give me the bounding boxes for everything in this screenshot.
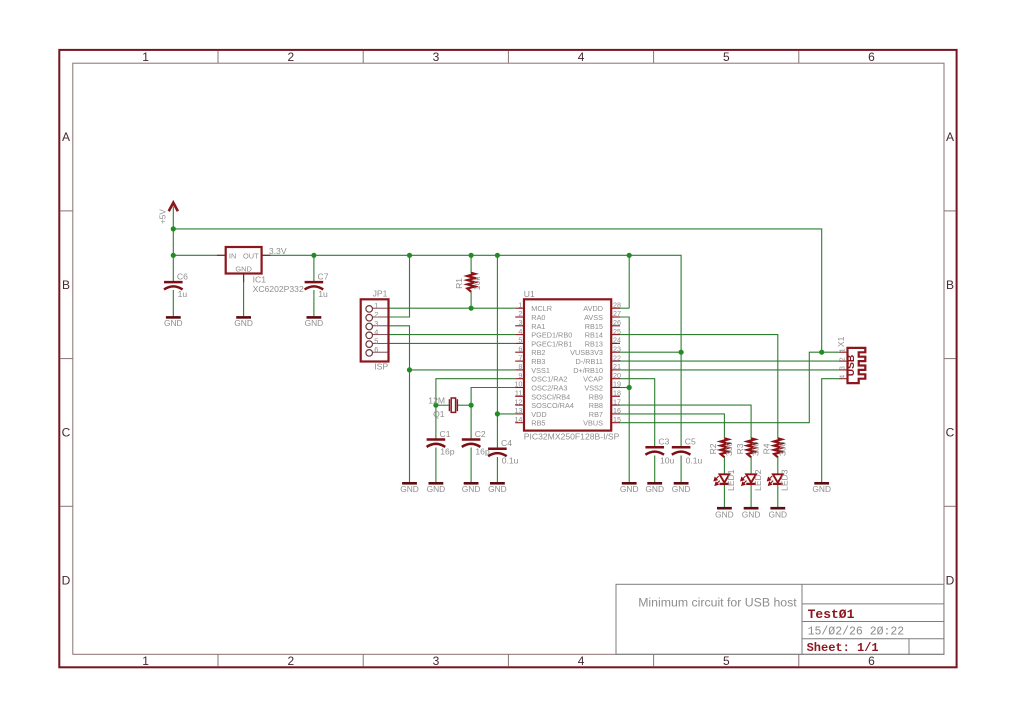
svg-text:300: 300 [777,442,787,457]
svg-text:A: A [946,130,954,144]
ground symbol GND [462,483,481,494]
svg-text:LED3: LED3 [780,469,790,491]
wire D+ to USB pin3 [620,369,839,371]
JP1 pin 1 [366,306,373,313]
svg-text:SOSCI/RB4: SOSCI/RB4 [531,392,570,401]
svg-text:10k: 10k [472,276,482,291]
svg-text:+5V: +5V [159,209,168,224]
svg-text:16p: 16p [475,446,490,456]
U1 pin 10 OSC2/RA3 [514,380,567,393]
U1 pin 16 RB7 [589,406,621,419]
wire R4-LED3 [777,456,779,474]
svg-text:7: 7 [518,353,522,362]
svg-text:15: 15 [613,415,621,424]
USB connector X1 [836,336,865,383]
svg-text:GND: GND [427,484,446,494]
svg-text:C: C [62,426,71,440]
microcontroller U1 PIC32MX250F128B-I/SP [514,289,621,442]
svg-text:U1: U1 [524,289,535,299]
svg-text:RB8: RB8 [589,401,603,410]
LED LED3 [768,469,790,491]
svg-text:VDD: VDD [531,410,546,419]
svg-text:3: 3 [433,50,440,64]
X1 pin 4 [838,375,848,379]
wire RB8 to R3 [620,405,751,438]
U1 pin 23 VUSB3V3 [570,344,621,357]
svg-text:11: 11 [515,389,522,398]
svg-text:3: 3 [518,318,522,327]
svg-text:27: 27 [613,309,621,318]
svg-text:20: 20 [613,371,621,380]
svg-text:C2: C2 [475,429,486,439]
wire crystal right to C2 [470,405,472,439]
svg-text:GND: GND [645,484,664,494]
U1 pin 17 RB8 [589,397,621,410]
resistor R3 300 [735,438,761,457]
wire R2-LED1 [723,456,725,474]
U1 pin 3 RA1 [515,318,545,331]
svg-text:RA0: RA0 [531,313,545,322]
ground symbol GND [672,483,691,494]
svg-text:25: 25 [613,327,621,336]
svg-text:9: 9 [518,371,522,380]
wire R1 bottom to MCLR net [470,291,472,308]
svg-text:C: C [946,426,955,440]
svg-text:D-/RB11: D-/RB11 [576,357,603,366]
svg-text:300: 300 [724,442,734,457]
U1 pin 11 SOSCI/RB4 [515,389,570,402]
ground symbol GND [164,317,183,328]
U1 pin 4 PGED1/RB0 [515,327,572,340]
svg-text:VUSB3V3: VUSB3V3 [570,348,603,357]
svg-text:2: 2 [374,310,378,319]
wire C7 to ground [313,290,315,317]
svg-text:TestØ1: TestØ1 [808,607,855,622]
wire +5V vertical from arrow to IN rail [172,207,174,256]
wire VDD to C4 [496,414,498,448]
U1 pin 9 OSC1/RA2 [515,371,567,384]
svg-text:18: 18 [613,389,621,398]
svg-text:R3: R3 [735,443,745,454]
svg-text:10u: 10u [660,456,675,466]
wire C2 to ground [470,448,472,484]
svg-text:VSS1: VSS1 [531,366,550,375]
svg-text:5: 5 [723,654,730,668]
svg-text:RB9: RB9 [589,392,603,401]
ground symbol GND [234,317,253,328]
svg-text:6: 6 [868,50,875,64]
capacitor C5 0.1u [672,437,703,466]
svg-text:C6: C6 [177,272,188,282]
wire IC1 GND pin to ground [243,274,245,318]
capacitor C1 16p [427,429,455,456]
capacitor C6 1u [164,272,188,299]
wire VSS2 to ground column [620,387,629,389]
svg-text:8: 8 [518,362,522,371]
svg-text:3: 3 [433,654,440,668]
svg-text:RB13: RB13 [585,339,603,348]
U1 pin 8 VSS1 [515,362,550,375]
svg-text:GND: GND [672,484,691,494]
svg-text:10: 10 [514,380,522,389]
svg-text:Minimum circuit for USB host: Minimum circuit for USB host [638,596,797,610]
svg-text:5: 5 [374,336,378,345]
frame row letters right [946,130,955,587]
ground symbol GND [620,483,639,494]
U1 pin 26 RB15 [585,318,621,331]
svg-text:1: 1 [838,348,847,352]
svg-text:4: 4 [518,327,522,336]
resistor R4 300 [762,438,788,457]
wire RB7 to R2 [620,414,724,439]
svg-text:28: 28 [613,300,621,309]
svg-text:LED2: LED2 [753,469,763,491]
svg-text:24: 24 [613,336,621,345]
wire C5 to ground [680,456,682,484]
wire LED cathode to ground (R3-LED2) [750,485,752,509]
svg-text:1: 1 [374,301,378,310]
svg-text:GND: GND [400,484,419,494]
svg-text:Sheet: 1/1: Sheet: 1/1 [807,641,879,655]
wire VUSB3V3 to rail column [620,351,681,353]
wire JP1 pin5 to PGEC1 [389,342,516,344]
X1 pin 3 [838,366,848,370]
svg-text:GND: GND [488,484,507,494]
svg-text:RB3: RB3 [531,357,545,366]
capacitor C7 1u [305,272,329,299]
JP1 pin 6 [366,350,373,357]
svg-text:R1: R1 [454,278,464,289]
wire VBUS to USB pin1 [620,352,839,423]
svg-text:2: 2 [518,309,522,318]
svg-text:D: D [62,573,71,587]
svg-text:GND: GND [305,318,324,328]
capacitor C3 10u [645,437,674,466]
wire RB14 to R4 [620,335,778,439]
svg-text:3.3V: 3.3V [269,246,287,256]
wire C1 to ground [435,448,437,484]
svg-text:USB: USB [846,355,857,377]
ground symbol GND [645,483,664,494]
svg-text:C7: C7 [318,272,329,282]
U1 pin 13 VDD [514,406,546,419]
svg-text:R4: R4 [762,443,772,454]
svg-text:17: 17 [613,397,621,406]
JP1 pin 2 [366,314,373,321]
wire +5V to C6 [172,255,174,281]
svg-text:3: 3 [374,319,378,328]
ground symbol GND [742,508,761,519]
svg-text:6: 6 [374,345,378,354]
U1 pin 18 RB9 [589,389,621,402]
svg-text:12: 12 [514,397,522,406]
svg-text:IN: IN [229,251,236,260]
svg-text:PGED1/RB0: PGED1/RB0 [531,331,572,340]
svg-text:RB5: RB5 [531,419,545,428]
svg-text:C1: C1 [440,429,451,439]
wire R3-LED2 [750,456,752,474]
svg-text:XC6202P332: XC6202P332 [253,284,304,294]
U1 pin 25 RB14 [585,327,621,340]
svg-text:MCLR: MCLR [531,304,552,313]
ground symbol GND [305,317,324,328]
ground symbol GND [488,483,507,494]
svg-text:12M: 12M [428,395,445,405]
U1 pin 14 RB5 [514,415,545,428]
svg-text:13: 13 [514,406,522,415]
U1 pin 20 VCAP [583,371,621,384]
ground symbol GND [768,508,787,519]
U1 pin 7 RB3 [515,353,545,366]
wire C6 to ground [172,290,174,317]
pin header JP1 ISP [361,289,389,372]
wire to crystal left plate [436,404,449,406]
wire crystal right plate to junction [458,404,472,406]
svg-text:C4: C4 [501,438,512,448]
voltage regulator IC1 XC6202P332 [217,247,304,294]
wire OSC1 to crystal left [436,379,515,406]
svg-text:ISP: ISP [374,362,388,372]
capacitor C2 16p [462,429,490,456]
LED LED2 [741,469,763,491]
wire D- to USB pin2 [620,360,839,362]
svg-text:GND: GND [812,484,831,494]
U1 pin 6 RB2 [515,344,545,357]
svg-text:AVDD: AVDD [583,304,603,313]
drawing frame outer border [59,50,956,667]
wire 3.3V rail from IC1 OUT to VUSB3V3 column [262,255,681,352]
ground symbol GND [715,508,734,519]
svg-text:PGEC1/RB1: PGEC1/RB1 [531,339,572,348]
wire +5V to IC1 IN [173,254,225,256]
U1 pin 24 RB13 [585,336,621,349]
svg-text:16: 16 [613,406,621,415]
svg-text:SOSCO/RA4: SOSCO/RA4 [531,401,574,410]
svg-text:GND: GND [235,264,251,273]
svg-text:21: 21 [613,362,621,371]
svg-text:VCAP: VCAP [583,375,603,384]
svg-text:6: 6 [518,344,522,353]
svg-text:X1: X1 [836,336,846,347]
JP1 pin 5 [366,341,373,348]
svg-text:2: 2 [287,654,294,668]
frame row letters left [62,130,71,587]
svg-text:D+/RB10: D+/RB10 [573,366,603,375]
wire JP1 pin4 to PGED1 [389,334,516,336]
U1 pin 27 AVSS [584,309,621,322]
svg-text:B: B [62,278,70,292]
svg-text:RB7: RB7 [589,410,603,419]
svg-text:26: 26 [613,318,621,327]
svg-text:RB2: RB2 [531,348,545,357]
frame column ticks [218,51,799,666]
wire VSS1 to ground column [410,369,516,371]
svg-text:OSC2/RA3: OSC2/RA3 [531,384,567,393]
svg-text:15/Ø2/26 2Ø:22: 15/Ø2/26 2Ø:22 [808,626,905,639]
svg-text:B: B [946,278,954,292]
ground symbol GND [812,483,831,494]
svg-text:0.1u: 0.1u [686,456,703,466]
svg-text:RA1: RA1 [531,322,545,331]
svg-text:GND: GND [768,510,787,520]
svg-text:0.1u: 0.1u [502,456,519,466]
svg-text:4: 4 [374,328,378,337]
U1 pin 1 MCLR [515,300,552,313]
U1 pin 28 AVDD [583,300,621,313]
svg-text:1: 1 [142,654,149,668]
svg-text:300: 300 [751,442,761,457]
svg-text:22: 22 [613,353,621,362]
+5V supply symbol [159,203,178,224]
wire +5V rail to USB VBUS [173,229,821,352]
svg-text:5: 5 [518,336,522,345]
svg-text:R2: R2 [708,443,718,454]
svg-text:GND: GND [234,318,253,328]
svg-text:19: 19 [613,380,621,389]
wire C3 to ground [654,456,656,484]
svg-text:Q1: Q1 [433,409,445,419]
svg-text:C5: C5 [685,437,696,447]
ground symbol GND [400,483,419,494]
frame row ticks [60,211,955,506]
wire LED cathode to ground (R2-LED1) [723,485,725,509]
wire crystal left to C1 [435,405,437,439]
wire VDD horizontal [497,413,515,415]
X1 pin 2 [838,357,848,361]
frame column numbers top [142,50,875,64]
svg-text:JP1: JP1 [373,289,388,299]
svg-text:VSS2: VSS2 [584,384,603,393]
wire AVDD horizontal [620,307,629,309]
wire OSC2 to crystal right [471,388,515,406]
svg-text:VBUS: VBUS [583,419,603,428]
wire 3.3V rail to R1 top [470,255,472,273]
svg-text:OUT: OUT [243,251,259,260]
wire USB pin4 to ground [822,379,839,484]
wire JP1 pin3 down to ground [389,326,410,484]
capacitor C4 0.1u [488,438,519,465]
wire C4 to ground [496,457,498,483]
wire JP1 pin2 to 3.3V rail [389,255,410,317]
svg-text:GND: GND [164,318,183,328]
X1 pin 1 [838,348,848,352]
svg-text:RB15: RB15 [585,322,603,331]
svg-text:1: 1 [142,50,149,64]
wire VCAP to C3 [620,379,655,447]
svg-text:D: D [946,573,955,587]
frame column numbers bottom [142,654,875,668]
U1 pin 21 D+/RB10 [573,362,621,375]
U1 pin 12 SOSCO/RA4 [514,397,573,410]
wire junction dots [171,226,825,416]
crystal Q1 12M [428,395,457,418]
title block [616,584,944,654]
svg-text:LED1: LED1 [726,469,736,491]
svg-text:14: 14 [514,415,522,424]
wire VUSB3V3 column to C5 [680,352,682,447]
wire LED cathode to ground (R4-LED3) [777,485,779,509]
svg-text:GND: GND [620,484,639,494]
svg-text:GND: GND [742,510,761,520]
svg-text:AVSS: AVSS [584,313,603,322]
svg-text:GND: GND [715,510,734,520]
svg-text:OSC1/RA2: OSC1/RA2 [531,375,567,384]
LED LED1 [714,469,736,491]
ground symbol GND [427,483,446,494]
U1 pin 22 D-/RB11 [576,353,621,366]
svg-text:1u: 1u [318,289,328,299]
svg-text:4: 4 [578,50,585,64]
svg-text:2: 2 [287,50,294,64]
svg-text:A: A [62,130,70,144]
resistor R1 10k [454,273,482,292]
wire 3.3V rail down to VDD [496,255,498,414]
resistor R2 300 [708,438,734,457]
wire AVSS down to ground [620,317,629,483]
svg-text:1: 1 [518,300,522,309]
svg-text:C3: C3 [658,437,669,447]
svg-text:6: 6 [868,654,875,668]
wire JP1 pin1 to U1 MCLR [389,307,516,309]
svg-text:PIC32MX250F128B-I/SP: PIC32MX250F128B-I/SP [524,432,620,442]
U1 pin 15 VBUS [583,415,621,428]
wire 3.3V to C7 [313,255,315,281]
JP1 pin 4 [366,332,373,339]
svg-text:RB14: RB14 [585,331,603,340]
drawing frame inner border [73,63,944,654]
U1 pin 19 VSS2 [584,380,621,393]
U1 pin 5 PGEC1/RB1 [515,336,572,349]
svg-text:GND: GND [462,484,481,494]
wire 3.3V rail down to AVDD [628,255,630,308]
svg-text:5: 5 [723,50,730,64]
svg-text:1u: 1u [178,289,188,299]
JP1 pin 3 [366,323,373,330]
U1 pin 2 RA0 [515,309,545,322]
svg-text:16p: 16p [440,446,455,456]
svg-text:23: 23 [613,344,621,353]
svg-text:4: 4 [578,654,585,668]
